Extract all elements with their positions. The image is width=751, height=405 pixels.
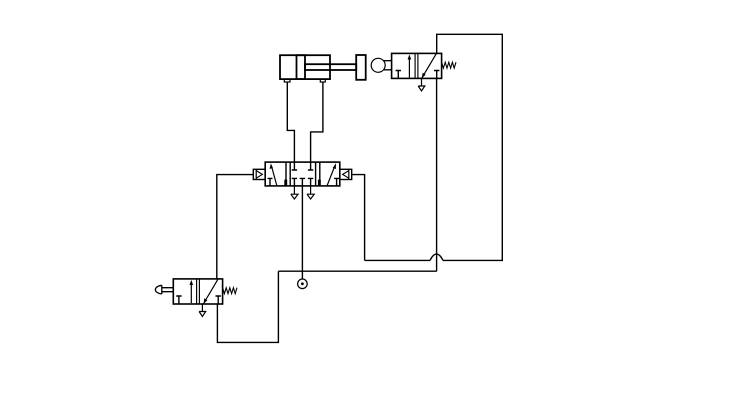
valve V3 right box flow diagonal xyxy=(422,54,437,79)
compressed air source P xyxy=(298,279,308,289)
valve V1 right box flow arrow xyxy=(327,166,335,186)
wire valve V1 right pilot to loop xyxy=(352,175,365,261)
valve V3 3/2-way roller body xyxy=(392,53,442,78)
wire valve V2 supply port to feed line xyxy=(217,271,278,342)
valve V2 exhaust silencer triangle xyxy=(199,304,206,316)
valve V3 right box blocked port T xyxy=(434,71,439,79)
valve V2 left box blocked port T xyxy=(176,296,181,304)
cylinder A (double-acting) body xyxy=(280,55,330,79)
feed line horizontal xyxy=(278,270,436,272)
valve V3 return spring xyxy=(442,62,456,68)
valve V2 3/2-way pushbutton body xyxy=(173,279,222,304)
wire cylinder right port to valve V1 port 2 xyxy=(311,82,323,162)
valve V3 exhaust silencer triangle xyxy=(418,78,425,91)
wire valve V3 output loop top xyxy=(437,34,503,260)
cylinder A rod end plate xyxy=(356,55,366,80)
cylinder A right port stub xyxy=(320,79,325,82)
valve V2 box divider xyxy=(197,279,200,304)
valve V3 left box blocked port T xyxy=(396,71,401,79)
wire cylinder left port to valve V1 port 4 xyxy=(287,82,294,162)
valve V2 left box flow arrow xyxy=(190,284,192,303)
valve V1 exhaust 5 silencer triangle xyxy=(291,186,298,199)
valve V1 right box blocked port T xyxy=(334,178,339,186)
valve V3 roller actuator xyxy=(384,61,392,70)
wire valve V3 supply port down to feed line xyxy=(436,78,438,271)
valve V1 middle box bottom blocked port T (1) xyxy=(300,178,305,186)
valve V1 box divider lines xyxy=(286,162,320,186)
valve V1 left pilot box xyxy=(253,169,265,179)
valve V1 right box plugged port (filled) xyxy=(318,180,321,186)
wire valve V1 port 1 to source xyxy=(301,186,303,279)
valve V1 middle box top blocked port T (2) xyxy=(308,162,313,170)
cylinder A piston rod xyxy=(305,64,356,70)
wire valve V1 left pilot to valve V2 output xyxy=(217,175,254,279)
valve V2 right box flow diagonal xyxy=(203,279,218,304)
valve V1 5/3-way body xyxy=(265,162,340,186)
cylinder A piston xyxy=(297,55,306,79)
cylinder A left port stub xyxy=(284,79,290,82)
wire loop bottom to right pilot wire xyxy=(365,259,430,261)
valve V1 left box blocked port T xyxy=(268,178,273,186)
valve V3 box divider xyxy=(415,53,418,78)
valve V2 return spring xyxy=(223,288,237,294)
valve V1 left box plugged port (filled) xyxy=(284,180,287,186)
valve V2 right box blocked port T xyxy=(216,296,221,304)
valve V1 right pilot box xyxy=(340,169,352,179)
wire hop over supply line xyxy=(430,254,443,261)
valve V1 exhaust 3 silencer triangle xyxy=(307,186,314,199)
valve V1 middle box bottom blocked port T (5) xyxy=(292,178,297,186)
valve V1 middle box bottom blocked port T (3) xyxy=(308,178,313,186)
valve V2 pushbutton actuator xyxy=(162,288,173,292)
valve V3 left box flow arrow xyxy=(408,59,410,78)
valve V1 middle box top blocked port T (4) xyxy=(292,162,297,170)
valve V1 left box flow arrow xyxy=(272,167,277,186)
